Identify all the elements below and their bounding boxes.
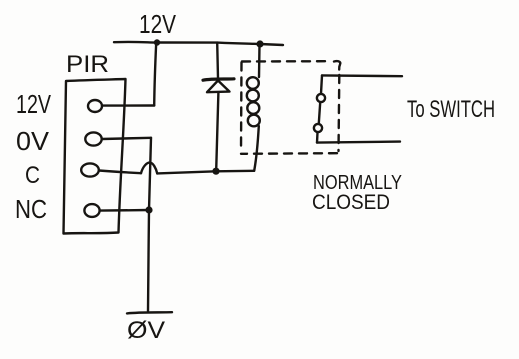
relay coil L1 lead bottom [254, 126, 259, 171]
svg-text:ØV: ØV [127, 317, 165, 344]
relay dashed outline bottom [241, 152, 337, 155]
relay contact top wire [322, 74, 402, 77]
diode D1 triangle [207, 81, 230, 93]
wire hop over [141, 163, 157, 174]
svg-text:12V: 12V [16, 89, 51, 119]
label C pin [25, 162, 40, 189]
label normally closed line1 [313, 172, 402, 194]
label 0V pin [16, 126, 50, 156]
terminal pin 0V [85, 132, 101, 145]
label 12V pin [16, 89, 51, 119]
node junction NC/0V wire [145, 206, 152, 213]
terminal pin NC [84, 204, 99, 217]
diode D1 cathode lead [216, 43, 219, 78]
svg-text:0V: 0V [16, 126, 50, 156]
label 0V ground [127, 317, 165, 344]
node junction top-right [256, 40, 263, 47]
label NC pin [15, 194, 47, 224]
relay dashed outline top [242, 60, 331, 63]
relay contact bottom pole [314, 124, 322, 132]
svg-text:12V: 12V [139, 9, 177, 39]
label 12V supply [139, 9, 177, 39]
ground bar [127, 312, 172, 313]
relay contact top lead [321, 75, 322, 93]
relay contact bottom lead [316, 133, 319, 143]
wire 0V vertical down to ground [148, 138, 151, 311]
wire 12V rail drop to PIR 12V terminal [154, 43, 156, 106]
label normally closed line2 [312, 191, 390, 214]
node junction top-left [154, 39, 160, 45]
wire 12V terminal to vertical [102, 104, 154, 106]
relay dashed outline corner hook [334, 61, 340, 69]
terminal pin 12V [88, 100, 102, 112]
relay contact arm [319, 103, 320, 124]
wire 0V terminal to vertical [102, 138, 151, 139]
relay coil L1 loops [247, 77, 259, 89]
relay contact bottom wire [317, 142, 400, 143]
svg-text:PIR: PIR [66, 51, 109, 78]
relay dashed outline left [240, 63, 243, 153]
svg-text:NC: NC [15, 194, 47, 224]
label PIR [66, 51, 109, 78]
node junction C/diode [212, 168, 219, 175]
PIR module box [64, 79, 126, 234]
relay contact top pole [317, 94, 325, 102]
relay dashed outline right [337, 75, 340, 151]
label to switch [407, 96, 495, 123]
diode D1 anode lead [216, 93, 218, 170]
wire NC terminal to junction [100, 209, 149, 212]
relay coil L1 lead top [258, 45, 261, 78]
wire C run to diode junction and coil [157, 171, 254, 174]
terminal pin C [81, 163, 99, 176]
svg-text:To SWITCH: To SWITCH [407, 96, 495, 123]
diode D1 cathode bar [203, 79, 234, 80]
svg-text:CLOSED: CLOSED [312, 191, 390, 214]
svg-text:C: C [25, 162, 40, 189]
wire top 12V rail [114, 42, 283, 45]
wire C terminal run with hop over 0V wire [99, 171, 141, 174]
